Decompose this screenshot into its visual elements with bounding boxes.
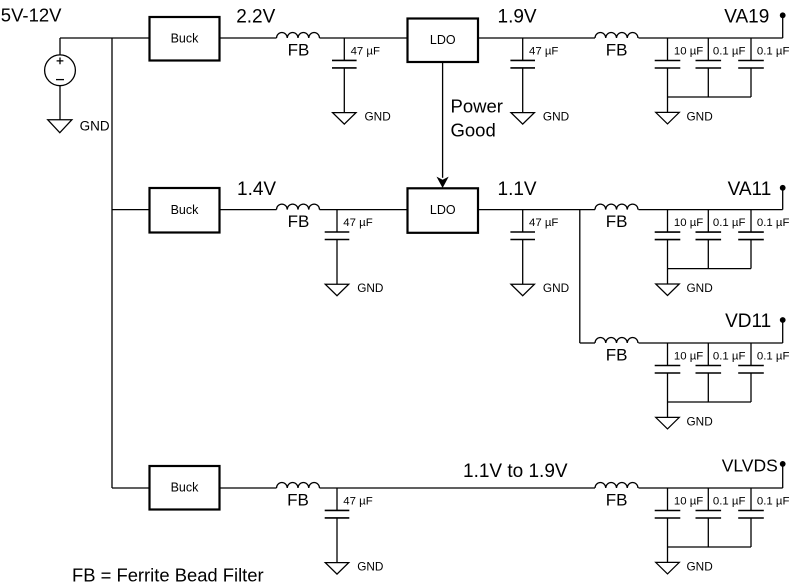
wire: ground bus of row3 capacitor bank — [668, 546, 752, 548]
svg-text:47 µF: 47 µF — [529, 45, 558, 57]
svg-text:FB: FB — [288, 40, 310, 59]
capacitor C11 10 uF capacitor — [655, 343, 704, 402]
svg-text:0.1 µF: 0.1 µF — [757, 350, 790, 362]
capacitor C10 0.1 uF capacitor — [738, 210, 789, 269]
capacitor C13 0.1 uF capacitor — [738, 343, 789, 402]
svg-text:0.1 µF: 0.1 µF — [713, 45, 746, 57]
node VA11 output terminal — [780, 185, 786, 210]
node VA19 output terminal — [780, 12, 786, 38]
svg-text:VD11: VD11 — [725, 311, 771, 332]
wire: branch to FB L5 — [580, 342, 595, 344]
label Power Good — [451, 95, 503, 140]
svg-text:5V-12V: 5V-12V — [1, 5, 62, 26]
capacitor C2 47 uF decoupling capacitor — [510, 38, 558, 113]
wire: L6 to FB L7 — [320, 487, 596, 489]
svg-text:GND: GND — [357, 281, 383, 295]
svg-text:GND: GND — [687, 109, 713, 123]
svg-text:GND: GND — [687, 414, 713, 428]
buck converter U1 — [150, 17, 220, 61]
svg-text:10 µF: 10 µF — [674, 350, 703, 362]
svg-text:Buck: Buck — [171, 203, 200, 217]
capacitor C16 0.1 uF capacitor — [696, 488, 746, 547]
wire: VD11 branch (vertical) — [579, 210, 581, 343]
wire: U4 output to FB L2 — [478, 37, 595, 39]
capacitor C5 0.1 uF capacitor — [738, 38, 789, 97]
buck converter U2 — [150, 188, 220, 233]
wire: ground bus of row2 capacitor bank — [668, 268, 752, 270]
svg-text:FB: FB — [287, 490, 309, 509]
svg-text:47 µF: 47 µF — [343, 217, 372, 229]
ground of C2 — [511, 110, 569, 125]
svg-text:0.1 µF: 0.1 µF — [757, 45, 790, 57]
svg-text:47 µF: 47 µF — [351, 45, 380, 57]
ground of row1 capacitor bank — [656, 109, 713, 124]
wire: L5 to VD11 terminal — [639, 342, 783, 344]
svg-text:0.1 µF: 0.1 µF — [757, 217, 790, 229]
wire: source to Buck U1 — [60, 37, 150, 39]
capacitor C12 0.1 uF capacitor — [696, 343, 746, 402]
wire: ground bus of rowVD11 capacitor bank — [668, 401, 752, 403]
svg-text:VA19: VA19 — [724, 7, 769, 28]
inductor L5 (ferrite bead) — [595, 338, 638, 365]
svg-text:FB: FB — [606, 345, 628, 364]
capacitor C3 10 uF capacitor — [655, 38, 704, 97]
svg-text:Good: Good — [451, 119, 496, 140]
svg-text:0.1 µF: 0.1 µF — [757, 495, 790, 507]
svg-text:FB: FB — [288, 212, 310, 231]
wire: stem to ground row2 — [667, 269, 669, 284]
svg-text:GND: GND — [80, 118, 110, 133]
inductor L7 (ferrite bead) — [595, 483, 638, 510]
svg-text:0.1 µF: 0.1 µF — [713, 495, 746, 507]
inductor L6 (ferrite bead) — [277, 483, 320, 510]
wire: L3 to LDO U5 — [320, 209, 408, 211]
wire: L1 to LDO U4 — [320, 37, 408, 39]
svg-text:0.1 µF: 0.1 µF — [713, 217, 746, 229]
wire: U2 output to FB L3 — [220, 209, 277, 211]
node VLVDS output terminal — [780, 461, 786, 488]
capacitor C1 47 uF decoupling capacitor — [332, 38, 380, 113]
svg-text:FB: FB — [606, 490, 628, 509]
arrowhead of Power Good signal — [437, 177, 449, 188]
capacitor C8 10 uF capacitor — [655, 210, 704, 269]
svg-text:FB = Ferrite Bead Filter: FB = Ferrite Bead Filter — [72, 565, 264, 586]
inductor L1 (ferrite bead) — [277, 33, 320, 60]
capacitor C6 47 uF decoupling capacitor — [325, 210, 373, 285]
wire: Power Good signal U4 to U5 — [442, 62, 444, 178]
capacitor C7 47 uF decoupling capacitor — [510, 210, 558, 285]
svg-text:1.9V: 1.9V — [498, 7, 537, 28]
svg-text:FB: FB — [606, 40, 628, 59]
svg-text:1.1V: 1.1V — [498, 179, 537, 200]
capacitor C17 0.1 uF capacitor — [738, 488, 789, 547]
ground of rowVD11 capacitor bank — [656, 414, 713, 429]
node VD11 output terminal — [780, 317, 786, 343]
wire: bus to Buck U2 — [112, 209, 150, 211]
svg-text:1.1V to 1.9V: 1.1V to 1.9V — [463, 461, 568, 482]
ground of C1 — [333, 110, 391, 125]
ground of row2 capacitor bank — [656, 281, 713, 296]
svg-text:10 µF: 10 µF — [674, 217, 703, 229]
ground of source V1 — [48, 118, 110, 133]
wire: ground bus of row1 capacitor bank — [668, 96, 752, 98]
voltage source V1 — [45, 55, 76, 86]
wire: stem to ground row3 — [667, 547, 669, 562]
capacitor C15 10 uF capacitor — [655, 488, 704, 547]
svg-text:VA11: VA11 — [728, 179, 772, 200]
LDO regulator U5 — [408, 188, 479, 233]
svg-text:GND: GND — [687, 281, 713, 295]
LDO regulator U4 — [408, 19, 479, 63]
svg-text:47 µF: 47 µF — [529, 217, 558, 229]
svg-text:Buck: Buck — [171, 31, 200, 45]
wire: bus to Buck U3 — [112, 487, 150, 489]
svg-text:GND: GND — [687, 559, 713, 573]
svg-text:10 µF: 10 µF — [674, 45, 703, 57]
svg-text:GND: GND — [543, 281, 569, 295]
wire: source to ground — [59, 86, 61, 120]
inductor L3 (ferrite bead) — [277, 204, 320, 231]
ground of row3 capacitor bank — [656, 559, 713, 574]
wire: U5 output to FB L4 — [478, 209, 595, 211]
capacitor C9 0.1 uF capacitor — [696, 210, 746, 269]
wire: input distribution bus (vertical) — [111, 38, 113, 488]
svg-text:10 µF: 10 µF — [674, 495, 703, 507]
wire: L7 to VLVDS terminal — [639, 487, 783, 489]
svg-text:GND: GND — [365, 110, 391, 124]
svg-text:0.1 µF: 0.1 µF — [713, 350, 746, 362]
wire: source top stub — [59, 38, 61, 55]
svg-text:GND: GND — [543, 110, 569, 124]
svg-text:LDO: LDO — [430, 33, 456, 47]
capacitor C4 0.1 uF capacitor — [696, 38, 746, 97]
svg-text:1.4V: 1.4V — [237, 179, 276, 200]
svg-text:2.2V: 2.2V — [236, 7, 275, 28]
svg-text:47 µF: 47 µF — [343, 495, 372, 507]
svg-text:GND: GND — [357, 560, 383, 574]
wire: stem to ground rowVD11 — [667, 402, 669, 417]
svg-text:LDO: LDO — [430, 203, 456, 217]
inductor L2 (ferrite bead) — [595, 33, 638, 60]
svg-text:FB: FB — [606, 212, 628, 231]
ground of C7 — [511, 281, 569, 296]
wire: U3 output to FB L6 — [220, 487, 277, 489]
svg-text:Buck: Buck — [171, 480, 200, 494]
capacitor C14 47 uF decoupling capacitor — [325, 488, 373, 563]
ground of C6 — [325, 281, 383, 296]
wire: U1 output to FB L1 — [220, 37, 277, 39]
inductor L4 (ferrite bead) — [595, 204, 638, 231]
ground of C14 — [325, 560, 383, 575]
wire: L2 to VA19 terminal — [639, 37, 783, 39]
wire: stem to ground row1 — [667, 97, 669, 112]
wire: L4 to VA11 terminal — [639, 209, 783, 211]
svg-text:Power: Power — [451, 95, 503, 116]
svg-text:VLVDS: VLVDS — [722, 456, 778, 476]
buck converter U3 — [150, 466, 220, 510]
